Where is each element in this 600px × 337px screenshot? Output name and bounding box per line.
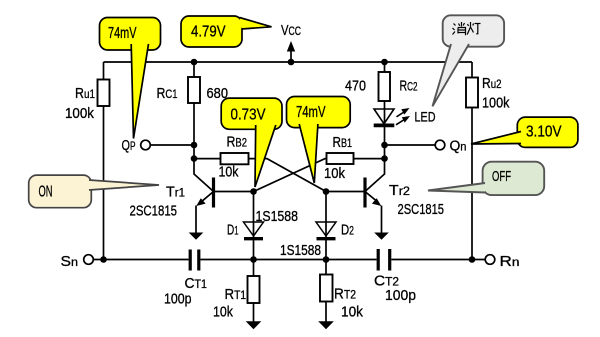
svg-text:2SC1815: 2SC1815 [398,201,445,218]
svg-text:10k: 10k [219,164,239,181]
svg-text:RC2: RC2 [400,78,418,95]
svg-text:ON: ON [39,184,53,201]
svg-text:RC1: RC1 [157,85,178,102]
svg-text:2SC1815: 2SC1815 [130,203,178,220]
svg-text:Ru2: Ru2 [482,75,502,92]
svg-text:CT1: CT1 [185,275,208,292]
svg-text:100k: 100k [482,95,510,112]
svg-text:D2: D2 [341,222,354,239]
svg-text:OFF: OFF [492,168,511,185]
svg-text:VCC: VCC [281,22,301,39]
svg-text:QP: QP [122,137,136,154]
svg-text:0.73V: 0.73V [231,107,266,124]
svg-text:LED: LED [415,109,436,125]
svg-text:10k: 10k [324,165,345,182]
svg-text:Tr2: Tr2 [389,182,410,199]
svg-text:100p: 100p [385,287,416,304]
svg-text:1S1588: 1S1588 [256,208,299,225]
svg-text:100k: 100k [65,105,94,122]
svg-text:74mV: 74mV [108,25,137,42]
svg-text:Tr1: Tr1 [166,184,185,201]
svg-text:10k: 10k [213,304,233,321]
svg-text:Rn: Rn [500,253,520,270]
svg-text:10k: 10k [341,304,363,321]
svg-text:4.79V: 4.79V [191,24,226,41]
svg-text:RB1: RB1 [333,134,353,151]
svg-text:RB2: RB2 [227,134,248,151]
svg-text:Sn: Sn [61,253,79,270]
svg-text:3.10V: 3.10V [526,124,562,141]
svg-text:Qn: Qn [450,138,467,155]
svg-text:470: 470 [345,78,366,95]
svg-text:74mV: 74mV [296,104,326,121]
svg-text:D1: D1 [227,222,239,239]
svg-text:RT2: RT2 [334,286,356,303]
svg-text:100p: 100p [164,291,192,308]
svg-text:Ru1: Ru1 [75,85,95,102]
svg-text:RT1: RT1 [225,286,247,303]
svg-text:1S1588: 1S1588 [280,242,321,259]
